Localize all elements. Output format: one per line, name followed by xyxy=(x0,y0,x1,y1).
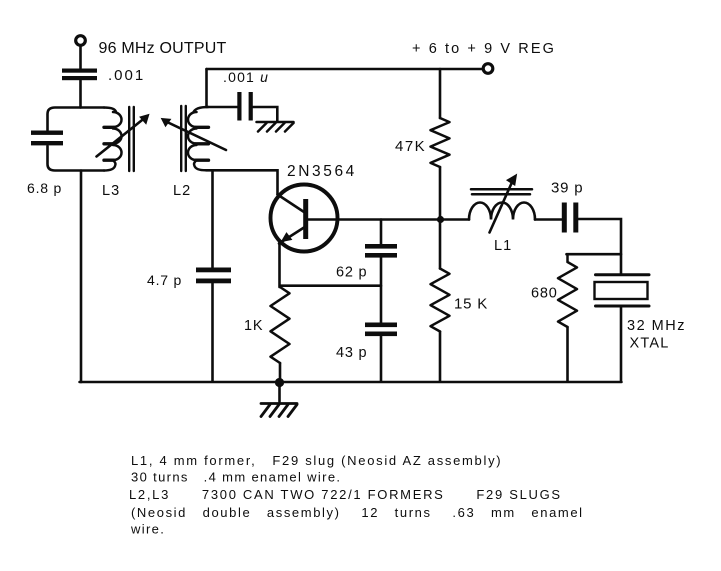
wire 62p to 43p xyxy=(380,258,383,323)
capacitor 43p xyxy=(365,323,397,337)
capacitor 39p xyxy=(562,203,579,233)
svg-text:wire.: wire. xyxy=(130,522,165,537)
+V supply rail xyxy=(207,68,484,71)
Q1 emitter lead xyxy=(279,228,304,244)
wire 47K to base node xyxy=(439,167,442,220)
svg-text:62 p: 62 p xyxy=(336,265,367,281)
wire 43p to ground rail xyxy=(380,336,383,382)
Q1 collector lead xyxy=(278,195,305,213)
ground (bottom) xyxy=(261,404,297,417)
svg-text:39 p: 39 p xyxy=(551,180,583,197)
wire 39p to crystal branch xyxy=(579,219,622,274)
svg-text:L2,L3 7300 CAN TWO 722/1: L2,L3 7300 CAN TWO 722/1 FORMERS F29 SLU… xyxy=(129,487,562,502)
svg-text:32 MHz: 32 MHz xyxy=(627,318,686,334)
svg-text:680: 680 xyxy=(531,286,558,302)
svg-text:1K: 1K xyxy=(244,318,263,334)
Q1 base lead xyxy=(308,218,338,221)
wire 4.7p branch down xyxy=(211,170,214,267)
resistor 47K xyxy=(431,118,450,167)
crystal body xyxy=(595,282,648,299)
inductor L1 xyxy=(469,203,535,220)
transistor Q1 2N3564 xyxy=(271,185,338,252)
svg-text:L1: L1 xyxy=(494,238,512,254)
wire 15K to ground rail xyxy=(439,332,442,382)
wire L2 top to +V rail xyxy=(205,69,208,107)
ground (top, after .001u) xyxy=(257,122,294,132)
svg-text:(Neosid double assembly): (Neosid double assembly) 12 turns .63 mm… xyxy=(131,505,584,520)
svg-text:L3: L3 xyxy=(102,183,120,199)
crystal bottom plate xyxy=(596,305,650,308)
Q1 emitter arrow xyxy=(282,233,292,242)
wire L3 tank bottom to ground rail xyxy=(80,171,83,383)
wire terminal to C .001 xyxy=(79,46,82,69)
wire C.001 to L3 tank top xyxy=(79,81,82,108)
junction dot (ground node) xyxy=(275,378,284,387)
wire 680 to ground rail xyxy=(566,327,569,381)
wire emitter to capacitor junction xyxy=(280,284,381,287)
svg-text:15 K: 15 K xyxy=(454,296,488,313)
wire Q1 emitter down xyxy=(278,244,281,287)
svg-text:+ 6 to + 9 V REG: + 6 to + 9 V REG xyxy=(412,41,556,57)
resistor 15K xyxy=(431,269,450,332)
wire 47K from +V rail xyxy=(439,69,442,118)
capacitor .001u xyxy=(237,92,253,121)
wire base node to 15K xyxy=(439,220,442,269)
wire C.001u to ground xyxy=(253,107,277,121)
svg-text:47K: 47K xyxy=(395,138,426,155)
wire L1 to 39p xyxy=(535,218,562,221)
Q1 base bar xyxy=(303,199,308,239)
L1 core lines xyxy=(471,189,532,194)
svg-text:4.7 p: 4.7 p xyxy=(147,272,182,288)
svg-text:L1, 4 mm former, F29 slug (N: L1, 4 mm former, F29 slug (Neosid AZ ass… xyxy=(131,453,502,468)
capacitor 6.8p xyxy=(31,131,63,146)
L1 tuning arrow xyxy=(490,180,514,233)
wire 1K to ground rail xyxy=(279,363,282,382)
svg-text:30 turns .4 mm enamel wire.: 30 turns .4 mm enamel wire. xyxy=(131,470,341,485)
svg-text:XTAL: XTAL xyxy=(630,336,670,352)
wire 62p branch xyxy=(380,220,383,245)
resistor 680 xyxy=(558,254,577,327)
svg-text:43 p: 43 p xyxy=(336,345,367,361)
L3 tuning arrow xyxy=(97,119,145,157)
wire L2 bottom to 4.7p junction and collector corner xyxy=(206,170,278,194)
L3 tank rectangle (top, left with cap gap, bottom) xyxy=(48,108,105,131)
output terminal xyxy=(76,36,86,46)
junction dot (base node) xyxy=(437,216,444,223)
L3 core lines xyxy=(129,107,134,171)
wire crystal to ground rail xyxy=(620,308,623,381)
svg-text:.001: .001 xyxy=(108,67,145,84)
capacitor 4.7p xyxy=(196,268,231,284)
supply terminal xyxy=(483,64,493,74)
capacitor .001 (output coupling) xyxy=(62,69,97,81)
inductor L3 coil xyxy=(104,108,116,113)
wire node to ground symbol xyxy=(278,383,281,402)
wire base node horizontal xyxy=(338,218,470,221)
resistor 1K xyxy=(271,287,290,363)
inductor L2 coil xyxy=(194,107,209,112)
L2 tuning arrow xyxy=(166,122,226,151)
wire 680 top connection xyxy=(567,253,622,256)
capacitor 62p xyxy=(365,244,397,258)
svg-text:.001 u: .001 u xyxy=(223,69,269,85)
svg-text:96 MHz OUTPUT: 96 MHz OUTPUT xyxy=(99,40,227,57)
crystal Y1 32MHz top plate xyxy=(596,273,650,276)
svg-text:2N3564: 2N3564 xyxy=(287,163,357,180)
svg-text:L2: L2 xyxy=(173,183,191,199)
wire L2 top to C.001u xyxy=(208,106,237,109)
ground rail (bottom) xyxy=(80,381,622,384)
wire 4.7p to ground rail xyxy=(211,284,214,382)
L2 core lines xyxy=(181,106,186,171)
svg-text:6.8 p: 6.8 p xyxy=(27,180,62,196)
